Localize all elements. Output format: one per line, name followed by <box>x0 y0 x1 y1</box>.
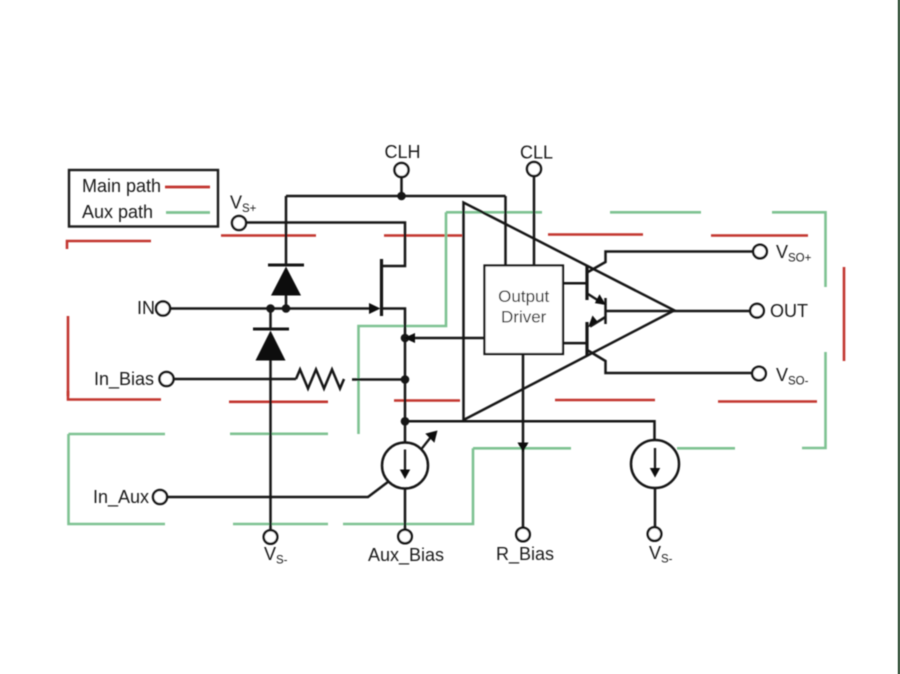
svg-text:Aux path: Aux path <box>82 202 153 222</box>
svg-text:In_Aux: In_Aux <box>93 487 149 508</box>
svg-text:Main path: Main path <box>82 176 161 196</box>
svg-text:OUT: OUT <box>770 301 808 321</box>
svg-text:Output: Output <box>498 287 549 306</box>
svg-text:Aux_Bias: Aux_Bias <box>368 545 444 566</box>
svg-text:CLL: CLL <box>520 143 553 163</box>
svg-text:Driver: Driver <box>501 308 547 327</box>
svg-text:R_Bias: R_Bias <box>496 544 554 565</box>
svg-text:In_Bias: In_Bias <box>94 369 154 390</box>
svg-text:IN: IN <box>137 298 155 318</box>
svg-text:CLH: CLH <box>384 142 420 162</box>
